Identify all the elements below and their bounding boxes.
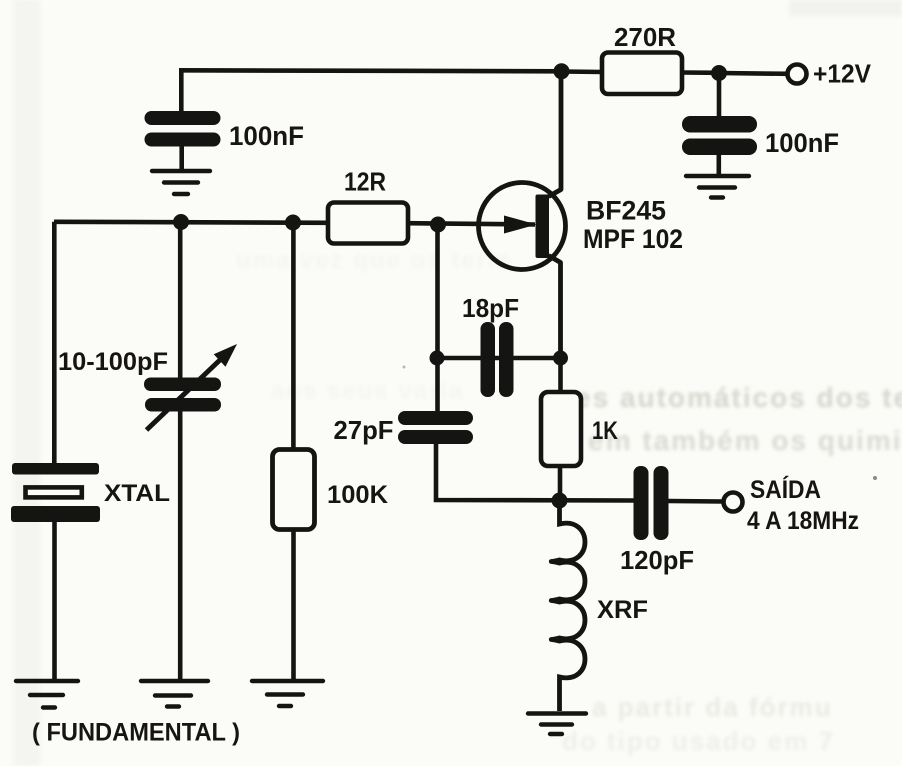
wire 12R to gate: [407, 223, 535, 224]
svg-text:1K: 1K: [592, 417, 618, 445]
wire trimmer branch lower lead to ground: [178, 410, 183, 681]
svg-text:XRF: XRF: [597, 596, 648, 624]
svg-text:10-100pF: 10-100pF: [58, 348, 168, 376]
wire 1K bottom to output node: [558, 466, 563, 500]
transistor Q1 drain lead: [549, 71, 562, 197]
svg-text:27pF: 27pF: [334, 415, 394, 445]
resistor 1K: [541, 392, 581, 466]
wire 100K lower lead to ground: [291, 528, 296, 681]
svg-text:100nF: 100nF: [229, 121, 304, 151]
capacitor C2 100nF plate bottom: [682, 139, 757, 156]
junction node gate: [430, 217, 446, 233]
resistor 270R: [602, 53, 682, 95]
svg-text:100nF: 100nF: [765, 128, 839, 158]
terminal +12V: [788, 65, 807, 84]
wire trimmer branch upper lead: [178, 222, 183, 379]
trimmer arrow head: [214, 344, 237, 367]
junction node output: [552, 493, 568, 509]
capacitor C2 100nF plate top: [682, 116, 757, 133]
svg-text:12R: 12R: [344, 167, 386, 197]
svg-text:em também os quimic: em também os quimic: [588, 425, 902, 456]
wire C1 bottom lead to ground: [179, 146, 184, 171]
capacitor 18pF plate right: [499, 322, 514, 397]
ground under 100K: [252, 681, 323, 706]
capacitor 27pF plate bottom: [398, 430, 473, 444]
wire 120pF to output terminal: [669, 499, 724, 504]
wire gate node down to feedback caps: [435, 225, 440, 413]
svg-text:SAÍDA: SAÍDA: [750, 475, 821, 504]
crystal XTAL body: [26, 487, 82, 497]
crystal XTAL plate top: [12, 463, 99, 475]
svg-text:BF245: BF245: [586, 196, 666, 226]
wire C2 bottom lead to ground: [716, 152, 721, 176]
crystal XTAL plate bottom: [11, 506, 100, 522]
inductor XRF: [551, 507, 585, 711]
capacitor 27pF plate top: [398, 411, 473, 425]
ground under XRF: [528, 714, 586, 735]
ground under C2: [686, 176, 749, 198]
svg-text:a partir da fórmu: a partir da fórmu: [592, 692, 833, 722]
svg-text:120pF: 120pF: [620, 545, 694, 575]
wire left branch down to XTAL: [52, 222, 57, 464]
wire resistor 270R to +12V node: [681, 70, 719, 75]
wire drain node to resistor 270R: [562, 69, 603, 74]
junction node bus/trimmer: [173, 214, 189, 230]
junction node at drain/270R: [554, 63, 570, 79]
speckle dots: [873, 476, 877, 480]
svg-text:4 A 18MHz: 4 A 18MHz: [747, 507, 859, 535]
svg-text:do tipo usado em 7: do tipo usado em 7: [562, 726, 835, 756]
junction node bus/100K: [285, 215, 301, 231]
wire XTAL bottom to ground: [52, 521, 57, 681]
wire top bus from C1 corner to drain node: [179, 70, 562, 71]
wire 18pF horizontal link: [437, 356, 560, 361]
resistor 100K: [273, 450, 315, 530]
ground under XTAL: [16, 681, 78, 708]
capacitor 120pF plate right: [654, 466, 669, 540]
svg-text:100K: 100K: [327, 481, 388, 509]
svg-text:MPF 102: MPF 102: [583, 224, 683, 254]
wire C2 top lead: [717, 73, 722, 117]
trimmer 10-100pF plate top: [144, 378, 221, 392]
junction node at +12V/C2: [711, 65, 727, 81]
svg-text:es automáticos dos term: es automáticos dos term: [575, 382, 902, 413]
wire +12V node to terminal: [719, 71, 788, 76]
svg-text:270R: 270R: [614, 22, 676, 52]
transistor Q1 gate arrow: [504, 216, 537, 234]
junction node 18pF right / source: [553, 351, 568, 366]
ground under trimmer: [141, 681, 208, 707]
wire main gate bus: [54, 222, 329, 223]
junction node 18pF left: [430, 351, 445, 366]
capacitor C1 100nF plate top: [145, 111, 221, 125]
wire C1 top lead: [179, 70, 184, 112]
resistor 12R: [328, 203, 408, 244]
svg-text:18pF: 18pF: [462, 293, 519, 323]
transistor Q1 channel bar: [536, 195, 550, 259]
ground under C1: [152, 171, 210, 194]
capacitor 18pF plate left: [481, 322, 496, 397]
wire source node to 1K top: [558, 358, 563, 392]
svg-text:uma vez que os term: uma vez que os term: [236, 247, 511, 274]
wire 27pF bottom lead and output row left: [436, 443, 634, 501]
svg-text:( FUNDAMENTAL ): ( FUNDAMENTAL ): [32, 719, 240, 747]
transistor Q1 circle: [479, 183, 566, 270]
trimmer 10-100pF plate bottom: [145, 398, 221, 412]
terminal SAIDA: [724, 493, 743, 512]
capacitor C1 100nF plate bottom: [145, 133, 221, 147]
transistor Q1 source lead: [549, 256, 561, 359]
svg-text:+12V: +12V: [813, 59, 872, 89]
svg-text:XTAL: XTAL: [104, 480, 170, 507]
capacitor 120pF plate left: [634, 466, 649, 540]
trimmer arrow shaft: [147, 358, 223, 430]
wire 100K upper lead: [291, 223, 296, 451]
